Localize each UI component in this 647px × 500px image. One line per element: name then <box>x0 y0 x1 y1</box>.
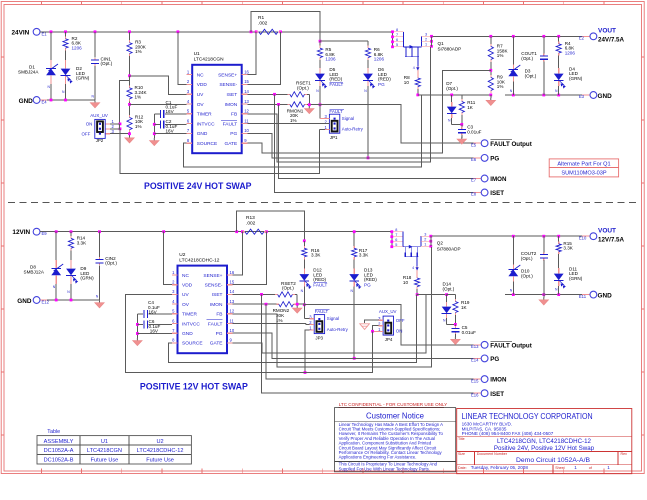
svg-text:FAULT: FAULT <box>315 309 329 314</box>
ground C5 <box>454 334 456 337</box>
U2 pin 9 GATE <box>227 342 233 344</box>
svg-text:3.3K: 3.3K <box>359 253 369 258</box>
svg-text:Demo Circuit 1052A-A/B: Demo Circuit 1052A-A/B <box>516 457 591 464</box>
svg-text:10: 10 <box>244 128 249 133</box>
svg-text:E4: E4 <box>42 99 48 104</box>
terminal E6 PG <box>474 157 482 159</box>
wire UV loop 12V <box>126 294 374 372</box>
svg-text:E10: E10 <box>579 235 587 240</box>
svg-text:JP4: JP4 <box>385 337 393 342</box>
svg-text:E14: E14 <box>471 358 479 363</box>
svg-text:Applications Engineering For A: Applications Engineering For Assistance. <box>339 455 417 460</box>
U1 pin 7 GND <box>187 132 193 134</box>
svg-text:1: 1 <box>574 465 577 470</box>
capacitor COUT2 optional <box>543 236 545 252</box>
svg-text:IMON: IMON <box>225 102 238 108</box>
U2 pin 2 VDD <box>172 284 178 286</box>
svg-text:Si7880ADP: Si7880ADP <box>437 246 461 251</box>
U1 pin 13 IMON <box>242 103 248 105</box>
U1 pin 15 SENSE- <box>242 83 248 85</box>
wire JP4 pin2 pin1 <box>373 326 379 332</box>
wire main 12V rail <box>40 231 392 233</box>
svg-text:VOUT: VOUT <box>598 28 616 35</box>
terminal E1 <box>40 31 47 33</box>
wire JP4 riser from loop <box>372 331 374 372</box>
ground C4 C6 <box>136 338 138 341</box>
svg-text:VDD: VDD <box>182 283 193 289</box>
resistor RSET1 optional <box>287 93 290 95</box>
wire D6 to PG row <box>367 86 369 158</box>
U2 pin 7 GND <box>172 332 178 334</box>
svg-text:E7: E7 <box>471 178 477 183</box>
U2 pin 4 OV <box>172 303 178 305</box>
svg-text:E12: E12 <box>42 299 50 304</box>
svg-text:JP2: JP2 <box>96 138 104 143</box>
ground R9 <box>490 95 492 98</box>
svg-text:Title: Title <box>458 437 465 441</box>
svg-text:1: 1 <box>424 242 426 246</box>
terminal E14 PG <box>474 357 482 359</box>
wire D5 to fault row <box>319 86 321 105</box>
wire R7 R9 mid node FB <box>490 62 492 75</box>
svg-text:13: 13 <box>230 299 235 304</box>
alternate part note box <box>549 159 618 177</box>
terminal E13 FAULT Output <box>474 344 482 346</box>
U2 pin 1 NC <box>172 274 178 276</box>
svg-text:Si7880ADP: Si7880ADP <box>438 46 462 51</box>
wire CIN1 branch <box>94 32 96 58</box>
svg-text:(Opt.): (Opt.) <box>521 56 533 61</box>
svg-text:LTC4218CGN: LTC4218CGN <box>87 448 122 454</box>
svg-text:SOURCE: SOURCE <box>182 341 203 347</box>
svg-text:2: 2 <box>424 237 426 241</box>
svg-text:PG: PG <box>490 156 499 163</box>
wire Q2 drain to VOUT <box>432 235 590 237</box>
svg-text:GATE: GATE <box>224 141 237 147</box>
svg-text:OV: OV <box>182 302 190 308</box>
svg-text:AUX_UV: AUX_UV <box>90 113 108 118</box>
svg-text:1K: 1K <box>461 305 468 310</box>
svg-text:UV: UV <box>197 92 204 98</box>
svg-text:LTC4218CDHC-12: LTC4218CDHC-12 <box>137 448 184 454</box>
svg-text:Alternate Part For Q1: Alternate Part For Q1 <box>557 162 610 168</box>
svg-text:1%: 1% <box>135 49 142 54</box>
svg-text:FAULT: FAULT <box>313 283 327 288</box>
svg-text:LTC CONFIDENTIAL - FOR CUSTOME: LTC CONFIDENTIAL - FOR CUSTOMER USE ONLY <box>339 402 448 407</box>
ground at CIN1 <box>94 100 96 103</box>
wire Q2 gate to R18 <box>416 257 418 267</box>
svg-text:UV: UV <box>182 292 189 298</box>
ground C3 <box>461 135 463 138</box>
svg-text:ISET: ISET <box>490 190 504 197</box>
wire IMON row <box>247 103 287 105</box>
capacitor C2 <box>159 120 161 128</box>
svg-text:1206: 1206 <box>374 57 385 62</box>
svg-text:4: 4 <box>413 66 415 70</box>
svg-text:SOURCE: SOURCE <box>197 141 218 147</box>
svg-text:OV: OV <box>197 102 205 108</box>
wire source bus <box>184 95 422 167</box>
terminal E12 <box>40 299 47 301</box>
svg-text:14: 14 <box>230 289 235 294</box>
wire sense- riser 12V <box>233 232 267 285</box>
capacitor C1 <box>159 110 161 118</box>
svg-text:NC: NC <box>182 273 189 279</box>
svg-text:7: 7 <box>395 233 397 237</box>
svg-text:12: 12 <box>230 309 235 314</box>
svg-text:IMON: IMON <box>490 176 507 183</box>
wire JP3 pin2 to U2 FAULT <box>233 323 306 325</box>
resistor RMON1 <box>287 103 290 105</box>
wire timer cap row <box>165 113 187 115</box>
wire JP2 pin2 <box>105 128 110 130</box>
svg-text:U2: U2 <box>179 252 185 258</box>
U1 pin 1 NC <box>187 74 193 76</box>
capacitor COUT1 optional <box>543 36 545 53</box>
U2 pin 10 PG <box>227 332 233 334</box>
wire R8 bottom node <box>417 89 419 95</box>
svg-text:24V/7.5A: 24V/7.5A <box>598 37 625 44</box>
svg-text:DC1052A-A: DC1052A-A <box>44 448 74 454</box>
svg-text:OFF: OFF <box>396 318 405 323</box>
U1 pin 3 UV <box>187 93 193 95</box>
wire VDD riser U2 <box>164 232 172 285</box>
svg-text:8: 8 <box>396 28 398 32</box>
U1 pin 2 VDD <box>187 83 193 85</box>
svg-text:PG: PG <box>490 356 499 363</box>
svg-text:Positive 24V, Positive 12V Hot: Positive 24V, Positive 12V Hot Swap <box>494 445 595 452</box>
transistor Q1 Si7880ADP <box>392 32 394 47</box>
svg-text:FAULT: FAULT <box>329 82 343 87</box>
customer notice box <box>335 408 456 472</box>
svg-text:16V: 16V <box>149 309 158 314</box>
svg-text:GND: GND <box>19 98 34 105</box>
svg-text:FB: FB <box>216 312 222 318</box>
wire JP3 pin1 down <box>305 330 310 373</box>
svg-text:VDD: VDD <box>197 82 208 88</box>
svg-text:16V: 16V <box>166 109 175 114</box>
svg-text:GND: GND <box>197 131 208 137</box>
U1 pin 11 FAULT <box>242 123 248 125</box>
svg-text:JP1: JP1 <box>330 135 338 140</box>
wire D1 branch <box>50 32 52 58</box>
svg-text:Document Number: Document Number <box>477 452 508 456</box>
wire IMON row 12V <box>233 303 277 305</box>
svg-text:U2: U2 <box>157 439 164 445</box>
resistor R5 <box>319 41 321 46</box>
svg-text:14: 14 <box>244 89 249 94</box>
svg-text:OFF: OFF <box>82 132 91 137</box>
svg-text:IMON: IMON <box>490 377 507 384</box>
svg-text:4: 4 <box>412 266 414 270</box>
svg-text:Q2: Q2 <box>437 241 444 246</box>
svg-text:E8: E8 <box>471 192 477 197</box>
wire fault net to E5 <box>320 105 481 144</box>
svg-text:12V/7.5A: 12V/7.5A <box>598 237 625 244</box>
svg-text:10: 10 <box>230 328 235 333</box>
svg-text:ASSEMBLY: ASSEMBLY <box>44 439 74 445</box>
svg-text:3.3K: 3.3K <box>563 246 573 251</box>
resistor R9 <box>490 75 492 78</box>
svg-text:(Opt.): (Opt.) <box>521 273 533 278</box>
node VOUT 24V <box>582 35 590 37</box>
resistor R11 <box>461 95 463 99</box>
svg-text:15: 15 <box>230 280 235 285</box>
wire IMON to E7 <box>279 104 482 178</box>
wire JP1 pin1 <box>325 129 330 131</box>
wire RMON2 right node <box>296 303 304 305</box>
title block <box>457 409 632 474</box>
wire JP2 pin3 <box>105 133 110 135</box>
svg-text:3: 3 <box>425 32 427 36</box>
svg-text:1%: 1% <box>135 124 142 129</box>
capacitor C6 <box>143 320 145 328</box>
resistor R1 .002 <box>256 31 259 33</box>
led D9 GRN <box>70 258 72 260</box>
resistor RMON2 <box>276 303 279 305</box>
terminal E7 IMON <box>474 178 482 180</box>
U2 pin 16 SENSE+ <box>227 274 233 276</box>
svg-text:Customer Notice: Customer Notice <box>366 412 424 421</box>
svg-text:E6: E6 <box>471 157 477 162</box>
svg-text:Future Use: Future Use <box>91 458 119 464</box>
svg-text:(GRN): (GRN) <box>80 276 94 281</box>
wire Q1 drain to VOUT <box>433 35 591 37</box>
svg-text:Table: Table <box>47 429 60 435</box>
svg-text:(RED): (RED) <box>329 77 342 82</box>
svg-text:16V: 16V <box>150 329 159 334</box>
svg-text:PG: PG <box>216 331 223 337</box>
diode D10 optional <box>512 236 514 264</box>
svg-text:R13: R13 <box>246 215 255 221</box>
svg-text:R1: R1 <box>258 15 264 21</box>
wire R12 to ground <box>129 132 131 137</box>
wire R18 bottom node <box>416 289 418 295</box>
terminal E8 ISET <box>474 192 482 194</box>
wire UV node to JP2 <box>120 81 130 124</box>
wire GND rail 12V <box>40 299 100 301</box>
svg-text:1%: 1% <box>497 53 504 58</box>
wire PG bus to E14 <box>233 333 482 358</box>
resistor R6 <box>367 41 369 46</box>
svg-text:10: 10 <box>404 80 410 85</box>
resistor R10 <box>129 85 131 88</box>
U2 pin 15 SENSE- <box>227 284 233 286</box>
U2 pin 11 FAULT <box>227 323 233 325</box>
wire intvcc cap row <box>165 123 187 125</box>
led D13 RED PG <box>353 259 355 268</box>
wire OV row <box>130 103 187 105</box>
svg-text:PG: PG <box>378 82 385 87</box>
svg-text:6: 6 <box>396 38 398 42</box>
terminal E4 <box>40 99 47 101</box>
U2 pin 8 SOURCE <box>172 342 178 344</box>
wire main 24V rail <box>40 31 393 33</box>
svg-text:1%: 1% <box>290 118 297 123</box>
U2 pin 13 IMON <box>227 303 233 305</box>
resistor R3 <box>129 40 131 43</box>
resistor RSET2 optional <box>275 293 278 295</box>
wire ISET to E8 <box>275 94 482 192</box>
svg-text:16: 16 <box>244 69 249 74</box>
svg-text:LTC4218CGN: LTC4218CGN <box>194 57 225 63</box>
wire R11 bottom <box>461 115 463 124</box>
U1 pin 6 INTVCC <box>187 123 193 125</box>
svg-text:VOUT: VOUT <box>598 227 616 234</box>
dashed separator <box>8 201 640 203</box>
svg-text:GND: GND <box>598 93 613 100</box>
node VOUT 12V <box>582 235 590 237</box>
wire VDD riser <box>178 32 187 85</box>
ground R12 <box>129 135 131 138</box>
svg-text:FAULT: FAULT <box>329 109 343 114</box>
U2 pin 6 INTVCC <box>172 323 178 325</box>
wire sense- riser <box>247 32 280 85</box>
svg-text:(RED): (RED) <box>364 277 377 282</box>
svg-text:Supplied For Use With Linear T: Supplied For Use With Linear Technology … <box>339 466 430 471</box>
svg-text:Signal: Signal <box>342 116 354 121</box>
svg-text:Tuesday, February 05, 2008: Tuesday, February 05, 2008 <box>471 465 529 470</box>
svg-text:POSITIVE 24V HOT SWAP: POSITIVE 24V HOT SWAP <box>144 180 252 191</box>
svg-text:U1: U1 <box>101 439 108 445</box>
svg-text:GND: GND <box>182 331 193 337</box>
wire D8 branch <box>55 232 57 258</box>
led D6 RED PG <box>367 60 369 68</box>
svg-text:1%: 1% <box>135 95 142 100</box>
svg-text:16V: 16V <box>166 128 175 133</box>
resistor R2 <box>65 36 67 39</box>
resistor R19 <box>454 295 456 299</box>
led D12 RED FAULT <box>303 259 305 268</box>
svg-text:Signal: Signal <box>327 316 339 321</box>
svg-text:FAULT Output: FAULT Output <box>490 342 531 349</box>
wire timer cap row 12V <box>149 313 172 315</box>
svg-text:12VIN: 12VIN <box>12 229 30 236</box>
svg-text:8: 8 <box>395 228 397 232</box>
wire D13 to PG row <box>353 287 355 359</box>
ground C1 C2 <box>153 138 155 141</box>
wire gate bus <box>247 70 490 153</box>
U1 pin 4 OV <box>187 103 193 105</box>
terminal E16 ISET <box>474 392 482 394</box>
wire gnd pin row <box>154 133 186 135</box>
wire 24V out gnd rail <box>505 94 590 96</box>
svg-text:INTVCC: INTVCC <box>182 321 200 327</box>
U1 pin 5 TIMER <box>187 113 193 115</box>
svg-text:(Opt.): (Opt.) <box>105 261 117 266</box>
wire RMON right node <box>307 104 320 106</box>
svg-text:PHONE (408) 954-8400 FAX (408: PHONE (408) 954-8400 FAX (408) 434-0507 <box>462 431 554 436</box>
svg-text:U1: U1 <box>194 51 200 57</box>
svg-text:E5: E5 <box>471 142 477 147</box>
svg-text:E3: E3 <box>579 94 585 99</box>
svg-text:1: 1 <box>425 42 427 46</box>
tvs diode D8 SMBJ12A <box>55 258 57 260</box>
wire fault net to E13 <box>304 305 481 345</box>
resistor R14 <box>70 236 72 239</box>
resistor R4 <box>558 36 560 41</box>
svg-text:E11: E11 <box>579 294 587 299</box>
svg-text:INTVCC: INTVCC <box>197 121 215 127</box>
resistor R8 <box>417 76 419 79</box>
svg-text:16: 16 <box>230 270 235 275</box>
wire JP4 pin3 to ground <box>365 320 379 323</box>
terminal E3 GND <box>582 94 590 96</box>
svg-text:SMBJ24A: SMBJ24A <box>18 70 39 75</box>
svg-text:(GRN): (GRN) <box>76 76 90 81</box>
wire gnd pin row 12V <box>137 333 171 335</box>
wire 12V out gnd rail <box>505 294 590 296</box>
resistor R16 <box>303 241 305 246</box>
wire FB bus <box>247 47 430 162</box>
wire R14/D9 branch <box>70 232 72 236</box>
svg-text:12: 12 <box>244 109 249 114</box>
wire aux loop <box>120 129 319 174</box>
svg-text:Sheet: Sheet <box>555 466 564 470</box>
capacitor CIN1 <box>94 58 96 60</box>
wire PG bus to E6 <box>247 134 481 158</box>
svg-text:LINEAR TECHNOLOGY CORPORATION: LINEAR TECHNOLOGY CORPORATION <box>462 412 593 421</box>
svg-text:FAULT: FAULT <box>208 321 223 327</box>
wire kelvin top loop 12V <box>237 211 305 241</box>
svg-text:(Opt.): (Opt.) <box>446 86 458 91</box>
svg-text:5: 5 <box>396 43 398 47</box>
svg-text:TIMER: TIMER <box>197 112 212 118</box>
wire source bus 12V <box>169 295 417 363</box>
svg-text:6: 6 <box>395 238 397 242</box>
svg-text:1206: 1206 <box>325 57 336 62</box>
svg-text:GND: GND <box>598 292 613 299</box>
wire R19 bottom <box>454 315 456 324</box>
wire CIN2 branch <box>99 232 101 257</box>
U1 pin 10 PG <box>242 132 248 134</box>
svg-text:13: 13 <box>244 99 249 104</box>
svg-text:(Opt.): (Opt.) <box>297 85 309 90</box>
svg-text:SUM110MO3-03P: SUM110MO3-03P <box>561 171 607 177</box>
svg-text:1%: 1% <box>497 84 504 89</box>
U2 pin 3 UV <box>172 293 178 295</box>
resistor R15 <box>558 236 560 241</box>
svg-text:TIMER: TIMER <box>182 312 197 318</box>
ground at CIN2 <box>99 300 101 303</box>
svg-text:2: 2 <box>425 37 427 41</box>
svg-text:(Opt.): (Opt.) <box>525 73 537 78</box>
svg-text:3: 3 <box>424 232 426 236</box>
U1 pin 14 ISET <box>242 93 248 95</box>
wire sense+ riser 12V <box>233 232 243 275</box>
resistor R13 .002 <box>242 231 245 233</box>
tvs diode D1 SMBJ24A <box>50 58 52 60</box>
U1 pin 8 SOURCE <box>187 142 193 144</box>
svg-text:24VIN: 24VIN <box>12 29 30 36</box>
svg-text:(RED): (RED) <box>378 77 391 82</box>
svg-text:E16: E16 <box>471 392 479 397</box>
wire FB bus 12V <box>233 247 432 367</box>
wire JP2 pin1 <box>105 123 110 125</box>
transistor Q2 Si7880ADP <box>391 232 393 247</box>
svg-text:PG: PG <box>364 283 371 288</box>
terminal E5 FAULT Output <box>474 142 482 144</box>
wire JP1 pin2 to U1 FAULT <box>247 123 329 125</box>
wire UV node to U1 <box>130 76 187 95</box>
svg-text:SMBJ12A: SMBJ12A <box>24 270 45 275</box>
svg-text:1206: 1206 <box>72 45 83 50</box>
svg-text:NC: NC <box>197 72 204 78</box>
U1 pin 16 SENSE+ <box>242 74 248 76</box>
svg-text:0.01uF: 0.01uF <box>462 330 476 335</box>
svg-text:11: 11 <box>230 318 235 323</box>
svg-text:E2: E2 <box>579 36 585 41</box>
